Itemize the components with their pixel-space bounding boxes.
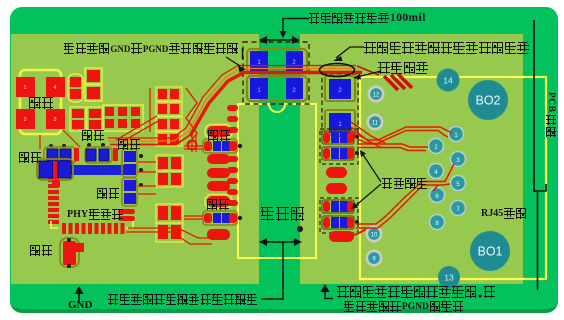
annotation: GND up arrow [78, 291, 80, 301]
bridge capacitor pads 1,2 lower [250, 78, 303, 99]
resistor pads (pills) upper group [207, 154, 230, 191]
wire: S-curve pair to RJ45 pins 5,7 [356, 164, 454, 228]
svg-text:1: 1 [23, 85, 26, 91]
small pads under PHY label [118, 209, 135, 221]
wire: main horizontal trace bundle to isolation bridge [108, 66, 362, 145]
resistor footprint pads pair upper [85, 68, 102, 101]
termination pads pills mid [326, 167, 347, 194]
label: PCB edge (vertical) [546, 92, 556, 137]
capacitor pads pair below capsule [70, 107, 103, 131]
label: capacitor (bottom left) [30, 245, 53, 256]
GND blue bus bar [70, 165, 125, 175]
RJ45 signal pin 1 [449, 127, 464, 142]
label: PHY layer chip [67, 209, 124, 220]
wire: left zigzag bundle beside pad column [116, 88, 197, 145]
annotation: tick after GND/PGND label [242, 48, 244, 59]
common-mode resistor network lower pair [322, 200, 359, 229]
label: keep-out note line 1 [337, 286, 496, 298]
RJ45 signal pin 2 [429, 139, 444, 154]
crystal Y1 courtyard outline [20, 70, 61, 134]
wire: PHY bottom traces to transformer [126, 228, 226, 244]
RJ45 pin hole 13 [438, 266, 460, 288]
resistor pad pill lower [207, 229, 230, 240]
svg-text:2: 2 [23, 117, 26, 123]
annotation: keep-out region up arrow [325, 289, 333, 299]
resistor pad pill under label lower [205, 195, 232, 209]
left inner copper region [11, 34, 259, 284]
plated hole 10 [366, 226, 383, 243]
label: keep-out note line 2 [344, 301, 465, 312]
svg-text:10: 10 [371, 233, 378, 239]
svg-text:13: 13 [444, 273, 454, 283]
wire: crystal to PHY links [40, 130, 80, 149]
capacitor pad-pair column (8 pairs) [156, 87, 183, 242]
crystal Y1 pads 1,4,2,3 [16, 77, 65, 129]
RJ45 mounting pad pill bottom-left [329, 231, 354, 242]
RJ45 signal pin 8 [430, 215, 445, 230]
annotation ellipse around LED drive lines [320, 64, 355, 77]
label: capacitor (column top) [118, 139, 141, 150]
label: GND [68, 299, 92, 311]
label: high-voltage capacitor [378, 62, 429, 74]
resistor pad pill under label upper [205, 125, 232, 139]
transformer left pin pads [227, 105, 238, 206]
high-voltage capacitor dashed box [322, 74, 358, 136]
svg-text:11: 11 [372, 121, 379, 127]
plated hole 12 [368, 86, 385, 103]
capacitor footprint C (capsule) right of crystal [68, 74, 83, 102]
bulk capacitors on bus [37, 158, 133, 187]
capacitor pad grid 3x2 [103, 105, 143, 131]
bridge resistor pair courtyard upper [247, 49, 307, 73]
plated hole 11 [367, 114, 384, 131]
label: capacitor (on red, lower) [207, 199, 230, 210]
RJ45 signal pin 4 [429, 164, 444, 179]
capacitor pair above blue bus [44, 143, 118, 163]
annotation: arrow from HV cap label to pad [357, 71, 381, 77]
RJ45 connector courtyard outline [360, 77, 546, 279]
bridge capacitor pair courtyard lower [247, 76, 307, 101]
RJ45 signal pin 5 [451, 176, 466, 191]
RJ45 signal pin 6 [430, 188, 445, 203]
PHY chip U1 bottom pin row [62, 223, 125, 234]
label: capacitor (mid) [97, 188, 120, 199]
label: isolation-width note (top) [309, 12, 426, 24]
decoupling capacitor C at bottom left [60, 238, 84, 268]
via on isolation strip [297, 226, 303, 232]
svg-text:12: 12 [373, 93, 380, 99]
PHY chip U1 left pin row [48, 178, 59, 224]
isolation bridge RC group dashed box [243, 42, 309, 104]
label: GND/PGND bridge note [64, 43, 239, 54]
common-mode resistor network upper pair [322, 131, 359, 160]
wire: hook trace from mounting pad [352, 229, 366, 236]
wire: pair to RJ45 pin 1 [352, 127, 452, 144]
label: crystal [29, 97, 55, 109]
wire: pair to RJ45 pin 2 [357, 144, 428, 151]
label: common-mode resistors [382, 178, 428, 189]
wire: diagonal stubs to indicator LED lines [357, 66, 412, 90]
via ring (red donut) [188, 141, 197, 150]
annotation: bottom isolation double arrow and leader [259, 238, 302, 246]
common-mode resistor pair dashed box lower [320, 198, 358, 233]
PHY chip silkscreen corner marks [51, 221, 133, 228]
RJ45 boss hole BO2 [468, 80, 508, 120]
bridge resistor pads 1,2 upper [250, 51, 303, 71]
label: capacitor (pad grid) [82, 130, 105, 141]
RJ45 signal pin 7 [451, 201, 466, 216]
plated hole 9 [366, 250, 383, 267]
label: capacitor (left edge) [19, 152, 42, 163]
svg-text:BO1: BO1 [477, 245, 502, 259]
resistor pack R (capacitor column) upper [203, 139, 242, 153]
right inner copper region [300, 34, 523, 284]
annotation: arrow from GND/PGND label to bridge [226, 57, 240, 66]
annotation: common-mode resistor leader lines [354, 153, 381, 207]
annotation: arrow from LED label to ellipse [336, 47, 364, 58]
capacitor column beside PHY [122, 149, 143, 206]
svg-text:3: 3 [53, 117, 56, 123]
svg-text:14: 14 [443, 76, 453, 86]
label: LED drive lines note [364, 42, 530, 54]
wire: PHY to capacitor column links [138, 134, 203, 219]
label: bottom isolation note [108, 294, 259, 305]
RJ45 boss hole BO1 [470, 231, 510, 271]
svg-text:BO2: BO2 [475, 94, 500, 108]
label: transformer [261, 207, 305, 221]
high-voltage capacitor pad 1 [325, 110, 355, 135]
resistor pack R (capacitor column) lower [203, 211, 242, 225]
common-mode resistor pair dashed box upper [320, 129, 358, 164]
annotation: isolation-width leader and double arrow [283, 19, 309, 34]
wire: trace from HV cap pad 1 to pins [351, 122, 385, 148]
transformer T1 courtyard outline with notch [238, 104, 316, 258]
high-voltage capacitor pad 2 [325, 76, 355, 101]
RJ45 signal pin 3 [451, 152, 466, 167]
annotation: PCB edge line with step and up arrow [534, 20, 546, 290]
label: capacitor (on red, upper) [208, 130, 231, 141]
label: RJ45 port [481, 208, 527, 219]
svg-text:4: 4 [53, 85, 56, 91]
RJ45 pin hole 14 [437, 69, 460, 92]
